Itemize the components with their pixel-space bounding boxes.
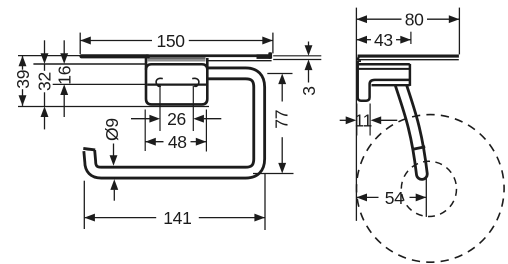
dimension 3 (shelf plate thickness) — [273, 55, 321, 57]
svg-text:11: 11 — [355, 111, 373, 131]
dimension 150 (shelf width) — [79, 33, 81, 55]
ext line: shelf top level — [18, 55, 80, 57]
dimension 48 (housing width) — [144, 110, 146, 152]
mount plate bottom line — [359, 63, 410, 66]
svg-text:141: 141 — [163, 208, 191, 228]
housing front edge — [409, 64, 412, 86]
roll holder housing box — [146, 58, 207, 104]
dimension 80 (shelf depth) — [458, 8, 460, 55]
shelf plate front edge (thick, left of housing) — [82, 54, 149, 58]
dimension 16 (flap top to split line) — [63, 40, 65, 57]
svg-text:32: 32 — [35, 72, 55, 91]
ext line: flap top level — [33, 63, 146, 65]
dimension 32 (flap top to housing bottom) — [44, 40, 46, 57]
bar joint tick — [412, 147, 425, 150]
shelf right end thick section — [257, 54, 272, 59]
wire bar (side view) — [401, 84, 422, 174]
bar end cap (flat cut end of rod, upper-left hook) — [83, 148, 95, 150]
right spring clip mark — [192, 78, 199, 86]
svg-text:48: 48 — [168, 132, 187, 152]
dimension 77 (bar loop height, axis to axis) — [267, 73, 292, 75]
shelf front lip — [358, 57, 360, 60]
svg-text:80: 80 — [405, 10, 424, 30]
wire bar (front view, Ø9 rod bent in open loop) — [89, 73, 259, 172]
dimension 11 (bracket depth) — [356, 104, 358, 136]
ext line: housing bottom level — [18, 106, 209, 108]
svg-text:43: 43 — [374, 30, 393, 50]
dimension 141 (bar overall width) — [83, 181, 85, 229]
svg-text:150: 150 — [156, 31, 185, 51]
housing inner split line — [147, 83, 206, 85]
ext line: housing split level — [53, 83, 147, 85]
roll core (dashed circle) — [401, 161, 456, 216]
svg-text:54: 54 — [385, 188, 404, 208]
dimension 39 (shelf top to housing bottom) — [22, 56, 24, 70]
shelf plate (front view, 150 wide) — [146, 54, 271, 57]
shelf plate (side view) — [358, 55, 459, 58]
housing bottom line (side) — [372, 84, 410, 86]
svg-text:3: 3 — [299, 86, 319, 95]
grey recess band under shelf — [148, 57, 206, 61]
dimension 26 (spring clip spacing) — [159, 86, 161, 131]
svg-text:26: 26 — [167, 109, 186, 129]
shelf right end nub — [268, 52, 272, 59]
wall line (side view) — [355, 8, 357, 221]
dimension 54 (wall to roll axis) — [425, 178, 427, 217]
svg-text:16: 16 — [55, 66, 75, 85]
svg-text:77: 77 — [272, 110, 292, 129]
dimension 43 (housing depth) — [410, 32, 412, 44]
svg-text:Ø9: Ø9 — [102, 118, 122, 141]
housing flap top edge — [146, 64, 207, 70]
svg-text:39: 39 — [13, 70, 33, 89]
shelf back underside line — [209, 60, 272, 62]
wall bracket profile — [358, 61, 410, 101]
paper roll max outline (dashed circle) — [357, 115, 505, 263]
mount plate second line — [359, 68, 410, 70]
left spring clip mark — [156, 78, 163, 86]
